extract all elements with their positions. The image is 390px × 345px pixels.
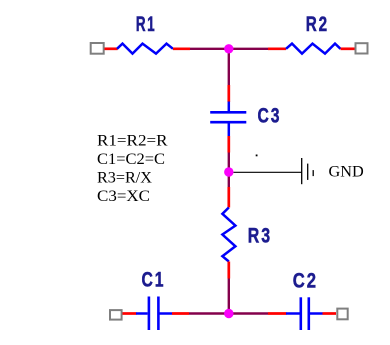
value label C3=XC — [97, 188, 150, 205]
port P4 (bottom-right terminal) — [337, 309, 347, 320]
resistor R1 — [117, 44, 173, 54]
svg-text:C1=C2=C: C1=C2=C — [97, 151, 165, 168]
value label R3=R/X — [97, 170, 152, 187]
wire — [341, 47, 355, 50]
port P3 (bottom-left terminal) — [110, 310, 122, 320]
label C2 — [293, 269, 318, 292]
wire — [173, 47, 190, 50]
wire — [190, 48, 268, 50]
wire — [228, 49, 230, 85]
svg-text:C1: C1 — [142, 269, 166, 292]
wire — [227, 262, 230, 279]
wire — [227, 85, 230, 102]
label R1 — [136, 13, 157, 36]
port P2 (top-right terminal) — [356, 43, 368, 53]
wire — [268, 312, 287, 315]
wire — [105, 47, 118, 50]
label R2 — [306, 13, 329, 36]
stray dot mark — [256, 155, 258, 157]
svg-text:R1: R1 — [136, 13, 157, 36]
wire — [268, 47, 286, 50]
node B (middle junction) — [224, 167, 233, 176]
wire — [227, 136, 230, 153]
wire — [228, 279, 230, 314]
resistor R3 — [222, 208, 235, 262]
label R3 — [248, 225, 272, 248]
wire — [228, 153, 230, 188]
svg-text:R3: R3 — [248, 225, 272, 248]
value label R1=R2=R — [97, 133, 168, 150]
svg-text:C2: C2 — [293, 269, 318, 292]
wire — [323, 312, 337, 315]
svg-text:GND: GND — [329, 164, 364, 181]
wire — [123, 312, 137, 315]
svg-text:R1=R2=R: R1=R2=R — [97, 133, 168, 150]
node C (bottom junction) — [224, 309, 233, 318]
label GND — [329, 164, 364, 181]
label C3 — [258, 105, 282, 128]
capacitor C1 — [136, 297, 172, 331]
resistor R2 — [286, 44, 341, 54]
svg-text:R2: R2 — [306, 13, 329, 36]
label C1 — [142, 269, 166, 292]
wire — [172, 312, 189, 315]
wire — [227, 187, 230, 208]
svg-text:C3: C3 — [258, 105, 282, 128]
wire (to ground) — [234, 171, 302, 173]
wire — [189, 312, 268, 314]
capacitor C2 — [286, 297, 323, 330]
svg-text:R3=R/X: R3=R/X — [97, 170, 152, 187]
port P1 (top-left terminal) — [91, 43, 104, 54]
ground GND — [302, 158, 314, 184]
value label C1=C2=C — [97, 151, 165, 168]
svg-text:C3=XC: C3=XC — [97, 188, 150, 205]
capacitor C3 — [210, 102, 246, 137]
node A (top junction) — [224, 44, 233, 53]
